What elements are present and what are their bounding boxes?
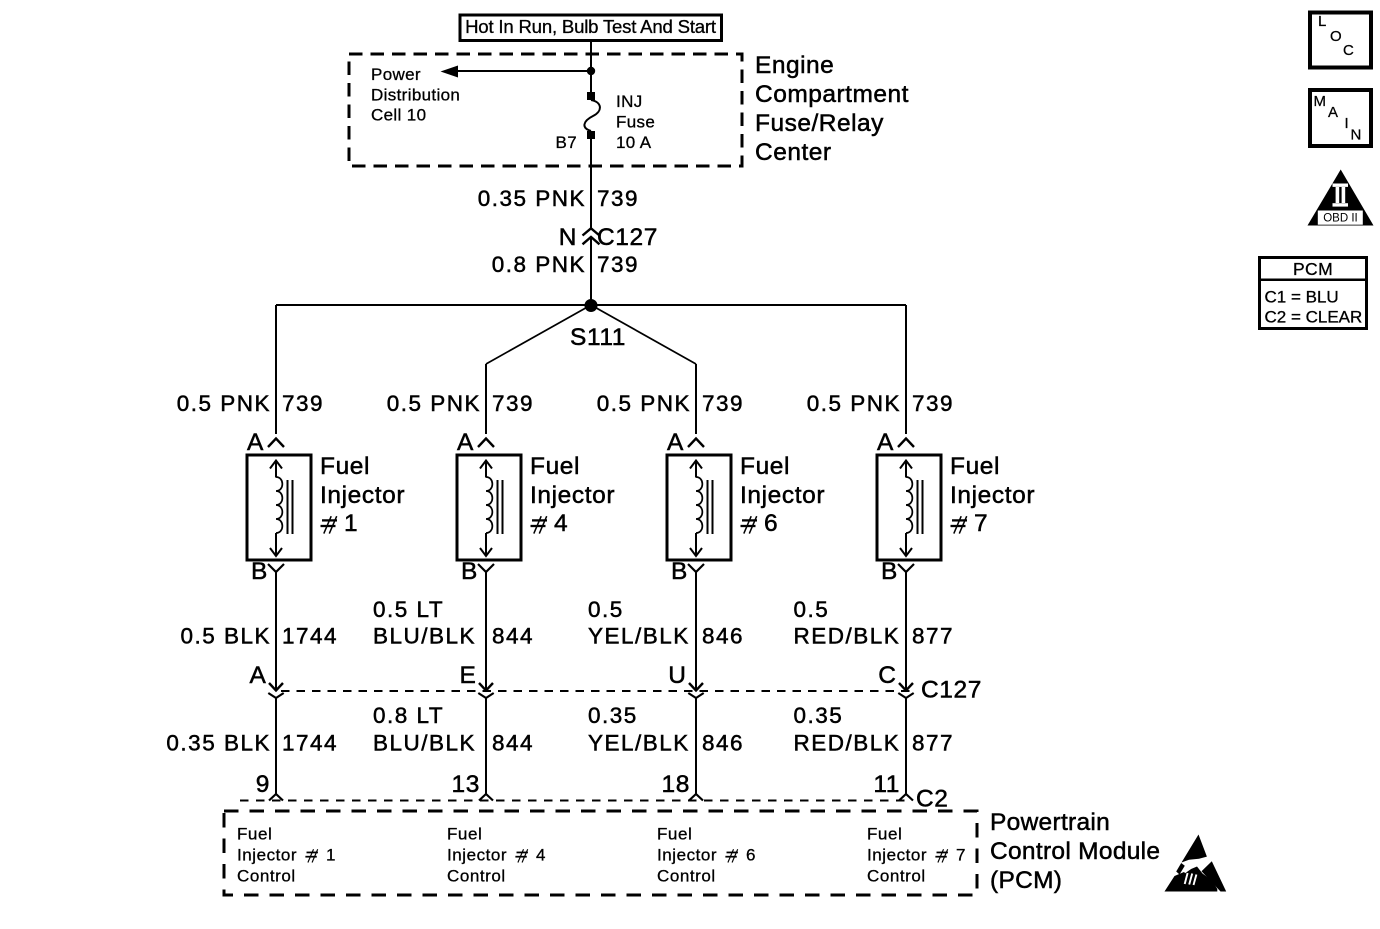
svg-text:739: 739 xyxy=(597,252,639,277)
svg-text:4: 4 xyxy=(554,510,568,537)
svg-text:A: A xyxy=(457,429,474,456)
svg-text:0.5 PNK: 0.5 PNK xyxy=(597,391,691,416)
svg-text:U: U xyxy=(668,662,686,689)
svg-text:Powertrain: Powertrain xyxy=(990,809,1110,836)
svg-text:0.5 BLK: 0.5 BLK xyxy=(180,624,271,649)
svg-text:739: 739 xyxy=(702,391,744,416)
svg-text:Fuel: Fuel xyxy=(867,825,902,844)
svg-text:B: B xyxy=(881,558,898,585)
svg-text:739: 739 xyxy=(597,186,639,211)
svg-text:0.5: 0.5 xyxy=(588,597,624,622)
svg-text:C127: C127 xyxy=(921,677,982,704)
svg-text:9: 9 xyxy=(256,771,270,798)
svg-text:N: N xyxy=(1351,127,1362,144)
svg-text:B: B xyxy=(251,558,268,585)
svg-text:C2 = CLEAR: C2 = CLEAR xyxy=(1265,308,1363,327)
svg-text:1: 1 xyxy=(344,510,358,537)
svg-text:Fuse/Relay: Fuse/Relay xyxy=(755,110,884,137)
svg-text:A: A xyxy=(667,429,684,456)
svg-text:10 A: 10 A xyxy=(616,133,652,152)
svg-text:A: A xyxy=(1328,104,1338,121)
svg-text:13: 13 xyxy=(452,771,480,798)
svg-text:Fuel: Fuel xyxy=(320,453,370,480)
svg-text:Compartment: Compartment xyxy=(755,81,909,108)
svg-text:Fuel: Fuel xyxy=(950,453,1000,480)
svg-text:Injector: Injector xyxy=(657,846,717,865)
svg-text:N: N xyxy=(559,224,577,251)
svg-text:Injector: Injector xyxy=(530,482,615,509)
svg-text:Injector: Injector xyxy=(237,846,297,865)
svg-text:0.35 PNK: 0.35 PNK xyxy=(478,186,586,211)
svg-text:0.35: 0.35 xyxy=(794,703,844,728)
svg-text:Injector: Injector xyxy=(950,482,1035,509)
svg-text:0.5 PNK: 0.5 PNK xyxy=(177,391,271,416)
svg-text:S111: S111 xyxy=(570,324,626,351)
svg-text:0.5: 0.5 xyxy=(794,597,830,622)
svg-text:YEL/BLK: YEL/BLK xyxy=(588,624,690,649)
svg-text:M: M xyxy=(1314,93,1327,110)
svg-text:877: 877 xyxy=(912,624,954,649)
svg-text:PCM: PCM xyxy=(1293,259,1333,279)
svg-text:INJ: INJ xyxy=(616,92,643,111)
svg-text:1744: 1744 xyxy=(282,731,338,756)
svg-text:A: A xyxy=(247,429,264,456)
svg-text:846: 846 xyxy=(702,731,744,756)
svg-text:Fuse: Fuse xyxy=(616,113,655,132)
svg-text:11: 11 xyxy=(873,771,900,798)
svg-text:0.5 PNK: 0.5 PNK xyxy=(807,391,901,416)
svg-text:Control: Control xyxy=(657,867,716,886)
svg-text:Fuel: Fuel xyxy=(530,453,580,480)
svg-text:OBD II: OBD II xyxy=(1323,213,1358,225)
svg-text:7: 7 xyxy=(974,510,988,537)
svg-text:Fuel: Fuel xyxy=(237,825,272,844)
svg-text:6: 6 xyxy=(764,510,778,537)
svg-text:1: 1 xyxy=(326,846,336,865)
svg-text:A: A xyxy=(250,662,267,689)
svg-text:C: C xyxy=(878,662,896,689)
svg-text:(PCM): (PCM) xyxy=(990,867,1062,894)
svg-text:B: B xyxy=(671,558,688,585)
svg-text:0.8 PNK: 0.8 PNK xyxy=(492,252,586,277)
svg-text:739: 739 xyxy=(282,391,324,416)
svg-text:C127: C127 xyxy=(597,224,658,251)
svg-text:O: O xyxy=(1330,28,1342,45)
svg-text:0.8 LT: 0.8 LT xyxy=(373,703,444,728)
svg-text:846: 846 xyxy=(702,624,744,649)
svg-text:C1 = BLU: C1 = BLU xyxy=(1265,288,1339,307)
svg-text:I: I xyxy=(1345,115,1349,132)
svg-text:844: 844 xyxy=(492,731,534,756)
svg-text:7: 7 xyxy=(956,846,966,865)
svg-text:18: 18 xyxy=(662,771,690,798)
svg-text:Control: Control xyxy=(447,867,506,886)
svg-text:A: A xyxy=(877,429,894,456)
svg-text:0.35: 0.35 xyxy=(588,703,638,728)
svg-text:877: 877 xyxy=(912,731,954,756)
svg-text:0.5 LT: 0.5 LT xyxy=(373,597,444,622)
svg-text:1744: 1744 xyxy=(282,624,338,649)
svg-text:Injector: Injector xyxy=(320,482,405,509)
svg-text:RED/BLK: RED/BLK xyxy=(794,731,901,756)
svg-text:Center: Center xyxy=(755,139,832,166)
svg-text:Fuel: Fuel xyxy=(447,825,482,844)
svg-text:Injector: Injector xyxy=(447,846,507,865)
svg-text:Distribution: Distribution xyxy=(371,85,460,104)
svg-text:C: C xyxy=(1343,42,1354,59)
svg-text:L: L xyxy=(1318,13,1326,30)
svg-text:Injector: Injector xyxy=(867,846,927,865)
svg-text:B7: B7 xyxy=(556,133,578,152)
svg-text:E: E xyxy=(460,662,477,689)
svg-text:Fuel: Fuel xyxy=(740,453,790,480)
svg-text:739: 739 xyxy=(492,391,534,416)
svg-text:BLU/BLK: BLU/BLK xyxy=(373,624,476,649)
svg-text:Engine: Engine xyxy=(755,52,834,79)
svg-text:844: 844 xyxy=(492,624,534,649)
svg-text:Control: Control xyxy=(867,867,926,886)
svg-text:0.5 PNK: 0.5 PNK xyxy=(387,391,481,416)
svg-text:Hot In Run, Bulb Test And Star: Hot In Run, Bulb Test And Start xyxy=(465,16,717,37)
svg-text:BLU/BLK: BLU/BLK xyxy=(373,731,476,756)
svg-text:Fuel: Fuel xyxy=(657,825,692,844)
svg-text:RED/BLK: RED/BLK xyxy=(794,624,901,649)
svg-text:739: 739 xyxy=(912,391,954,416)
svg-text:YEL/BLK: YEL/BLK xyxy=(588,731,690,756)
svg-text:Injector: Injector xyxy=(740,482,825,509)
svg-text:0.35 BLK: 0.35 BLK xyxy=(166,731,271,756)
svg-text:Control: Control xyxy=(237,867,296,886)
svg-text:Power: Power xyxy=(371,65,421,84)
svg-text:6: 6 xyxy=(746,846,756,865)
svg-text:B: B xyxy=(461,558,478,585)
svg-text:C2: C2 xyxy=(916,786,949,813)
svg-text:4: 4 xyxy=(536,846,546,865)
svg-text:Cell 10: Cell 10 xyxy=(371,106,426,125)
svg-text:Control Module: Control Module xyxy=(990,838,1160,865)
